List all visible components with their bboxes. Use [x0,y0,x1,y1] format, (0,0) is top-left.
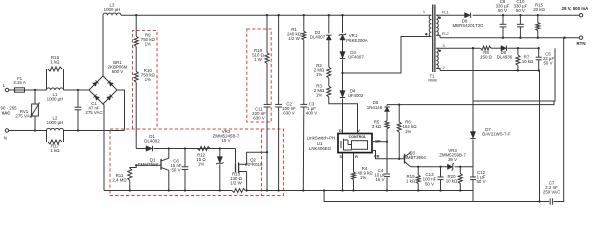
wire primary return [341,37,427,75]
resistor R17 1k (parallel L2) [47,131,64,154]
svg-text:LinkSwitch-PH: LinkSwitch-PH [307,135,336,140]
wire [64,89,90,91]
svg-text:630 V: 630 V [283,110,295,115]
svg-text:R: R [355,154,358,159]
svg-text:3: 3 [443,43,445,48]
output terminal RTN [576,36,585,46]
transformer primary winding (pin 1) [423,9,431,36]
wire top rail [121,14,428,16]
svg-text:39 V: 39 V [448,157,457,162]
resistor R10 750k 1% [134,46,155,148]
capacitor C8 330uF 50V [496,0,510,38]
wire RTN rail [440,37,579,39]
resistor R9 750k 1% [134,15,155,46]
svg-text:275 VAC: 275 VAC [85,110,102,115]
svg-text:50 V: 50 V [425,181,434,186]
resistor R18 510ohm 1W [252,15,269,63]
capacitor C6 15nF 50V [170,149,188,191]
wire bus-to-Y-cap link [324,38,564,203]
svg-text:D: D [339,128,342,133]
svg-text:UF4002: UF4002 [348,93,364,98]
svg-text:1 kΩ: 1 kΩ [50,148,60,153]
svg-text:1%: 1% [316,72,322,77]
wire DC- bus [104,189,473,193]
svg-text:FMMT558: FMMT558 [138,162,159,167]
op-amp U1 LinkSwitch-PH LNK406EG (controller IC) [307,128,381,159]
svg-text:50 V: 50 V [498,8,507,13]
svg-text:BAV21WS-7-F: BAV21WS-7-F [482,132,511,137]
resistor R2 2M 1% [314,63,331,78]
resistor R12 15ohm 1% [196,147,210,167]
bridge BR1 2KBP06M 600V [89,60,128,104]
resistor R15 20k [533,3,545,38]
svg-text:1: 1 [423,9,425,14]
wire FB pin [372,151,405,160]
wire bridge left to L rail [88,89,90,91]
svg-text:1%: 1% [145,77,151,82]
resistor R1 240k 1/2W [287,15,306,41]
svg-text:400 V: 400 V [306,110,318,115]
wire [25,89,47,91]
wire S pin to bus [342,153,344,191]
inductor L1 1000uH [47,88,64,102]
resistor R5 3k [372,119,389,141]
svg-text:150 Ω: 150 Ω [480,55,493,60]
wire [9,129,47,131]
Y-capacitor C7 2.2nF 250VAC [543,181,560,205]
svg-text:DL4007: DL4007 [310,35,326,40]
svg-text:RTN: RTN [576,41,585,46]
svg-text:10 kΩ: 10 kΩ [446,179,458,184]
wire bias rail pin3 [440,47,481,49]
wire secondary + rail [440,14,579,16]
svg-text:1 kΩ: 1 kΩ [50,59,60,64]
svg-text:P6KE200A: P6KE200A [346,38,368,43]
svg-text:2: 2 [443,65,445,70]
wire bridge right to N rail [117,90,125,131]
svg-text:3.15 A: 3.15 A [13,80,26,85]
svg-text:10 kΩ: 10 kΩ [522,59,534,64]
transformer T1 RM8 core [428,5,436,83]
wire damper node [168,147,236,149]
svg-text:1%: 1% [405,129,411,134]
resistor R3 2M 1% [314,78,331,98]
wire bias sense rail [387,48,555,106]
svg-text:FL1: FL1 [442,10,449,15]
transistor Q3 MMBT3904 [403,151,426,167]
fuse F1 3.15A [13,76,26,92]
zener VR1 P6KE200A [339,15,368,43]
resistor R16 1k (parallel L1) [47,55,64,90]
svg-text:28 V, 500 mA: 28 V, 500 mA [562,6,590,11]
svg-text:1%: 1% [145,41,151,46]
svg-text:50 V: 50 V [516,8,525,13]
diode D1 DL4002 [136,134,169,151]
resistor R13 130ohm 1/2W (in return path) [230,172,243,186]
svg-text:50 V: 50 V [543,61,552,66]
svg-text:1000 µH: 1000 µH [47,120,64,125]
svg-text:250 VAC: 250 VAC [543,190,560,195]
zener VR2 ZMM5245B-7 15V [213,129,240,190]
svg-text:RM8: RM8 [428,78,436,83]
capacitor C10 330uF 50V [514,0,528,38]
wire bridge top to L3 [102,15,104,76]
inductor L3 1000uH [103,3,121,16]
red dashed box (bleeder/damper circuit, optional) [110,129,284,196]
svg-text:DL4002: DL4002 [144,139,160,144]
capacitor C11 220nF 630V [252,64,270,191]
resistor R8 150ohm [480,46,493,59]
svg-text:S: S [339,154,342,159]
capacitor C1 47nF 275VAC [75,90,103,131]
red dashed box (R18/C11 snubber, optional) [247,29,271,122]
capacitor C3 1uF 400V [300,40,317,191]
svg-text:CONTROL: CONTROL [349,135,368,139]
mosfet Q2 IRFR010 [236,149,268,191]
svg-text:UF4007: UF4007 [348,54,364,59]
varistor RV1 275VAC [15,90,39,131]
wire [64,129,125,131]
svg-text:BP: BP [375,139,381,144]
svg-text:LNK406EG: LNK406EG [309,146,332,151]
resistor R4 49.9k 1% (R pin) [352,153,374,191]
zener VR3 ZMM5259B-7 39V [439,148,466,171]
resistor R20 10k [446,167,463,191]
capacitor C5 22uF 50V [536,48,555,70]
svg-text:3 kΩ: 3 kΩ [372,124,382,129]
svg-text:50 V: 50 V [171,168,180,173]
resistor R11 2.4M [112,165,136,190]
svg-text:MBRS4201T3G: MBRS4201T3G [453,23,485,28]
wire [9,89,15,91]
svg-text:1/2 W: 1/2 W [288,36,300,41]
svg-text:15 V: 15 V [221,138,230,143]
capacitor C13 100nF 50V [423,167,444,191]
wire bias return pin2 [440,69,540,201]
wire [491,47,501,49]
diode D3 UF4007 [340,40,365,73]
resistor R7 10k [516,48,534,70]
svg-text:MMBT3904: MMBT3904 [403,155,426,160]
svg-text:IRFR010: IRFR010 [245,162,263,167]
diode D2 DL4007 [310,15,332,67]
svg-text:1000 µH: 1000 µH [47,96,64,101]
svg-text:V: V [357,128,360,133]
diode D4 UF4002 [340,73,364,134]
svg-text:N: N [4,136,7,141]
capacitor C2 100nF 630V [275,15,296,190]
input terminal L [3,83,9,92]
svg-text:630 V: 630 V [253,115,265,120]
wire bias+ node [508,47,540,49]
transistor Q1 FMMT558 [135,149,169,191]
svg-text:1000 µH: 1000 µH [104,7,121,12]
wire Q3 emitter rail [411,166,474,168]
svg-text:1/2 W: 1/2 W [230,180,242,185]
red dashed box (R9/R10 input sense, optional) [133,31,158,130]
output terminal 28V 500mA [562,6,590,17]
resistor R6 162k 1% [397,105,417,159]
wire BP pin [372,141,388,143]
svg-text:600 V: 600 V [112,69,124,74]
transformer bias winding (pins 3,2) [436,43,444,70]
svg-text:275 VAC: 275 VAC [15,113,32,118]
capacitor C4 10uF 16V [374,142,390,191]
inductor L2 1000uH [47,116,64,131]
diode D8 MBRS4201T3G [453,13,485,29]
svg-text:50 V: 50 V [476,179,485,184]
svg-text:FL2: FL2 [442,31,449,36]
svg-text:1%: 1% [360,175,366,180]
svg-text:1 W: 1 W [254,57,263,62]
svg-text:DL4936: DL4936 [497,55,513,60]
capacitor C12 1uF 50V [470,167,486,191]
svg-text:1N4148: 1N4148 [367,105,383,110]
diode D6 DL4936 [497,46,513,60]
wire R3 to V pin [329,97,358,134]
transformer secondary winding FL1/FL2 [436,10,448,38]
diode D5 1N4148 [367,100,390,121]
svg-text:2.4 MΩ: 2.4 MΩ [112,178,127,183]
svg-text:VAC: VAC [2,110,12,115]
resistor R19 1k [406,167,420,191]
svg-text:16 V: 16 V [375,177,384,182]
label 90-265 VAC [1,106,18,116]
input terminal N [4,129,9,141]
svg-text:1%: 1% [198,162,204,167]
svg-text:1%: 1% [316,93,322,98]
svg-text:20 kΩ: 20 kΩ [533,7,545,12]
wire bridge bottom to DC- bus [103,104,104,191]
diode D7 BAV21WS-7-F [470,48,511,167]
svg-text:1 kΩ: 1 kΩ [406,179,416,184]
